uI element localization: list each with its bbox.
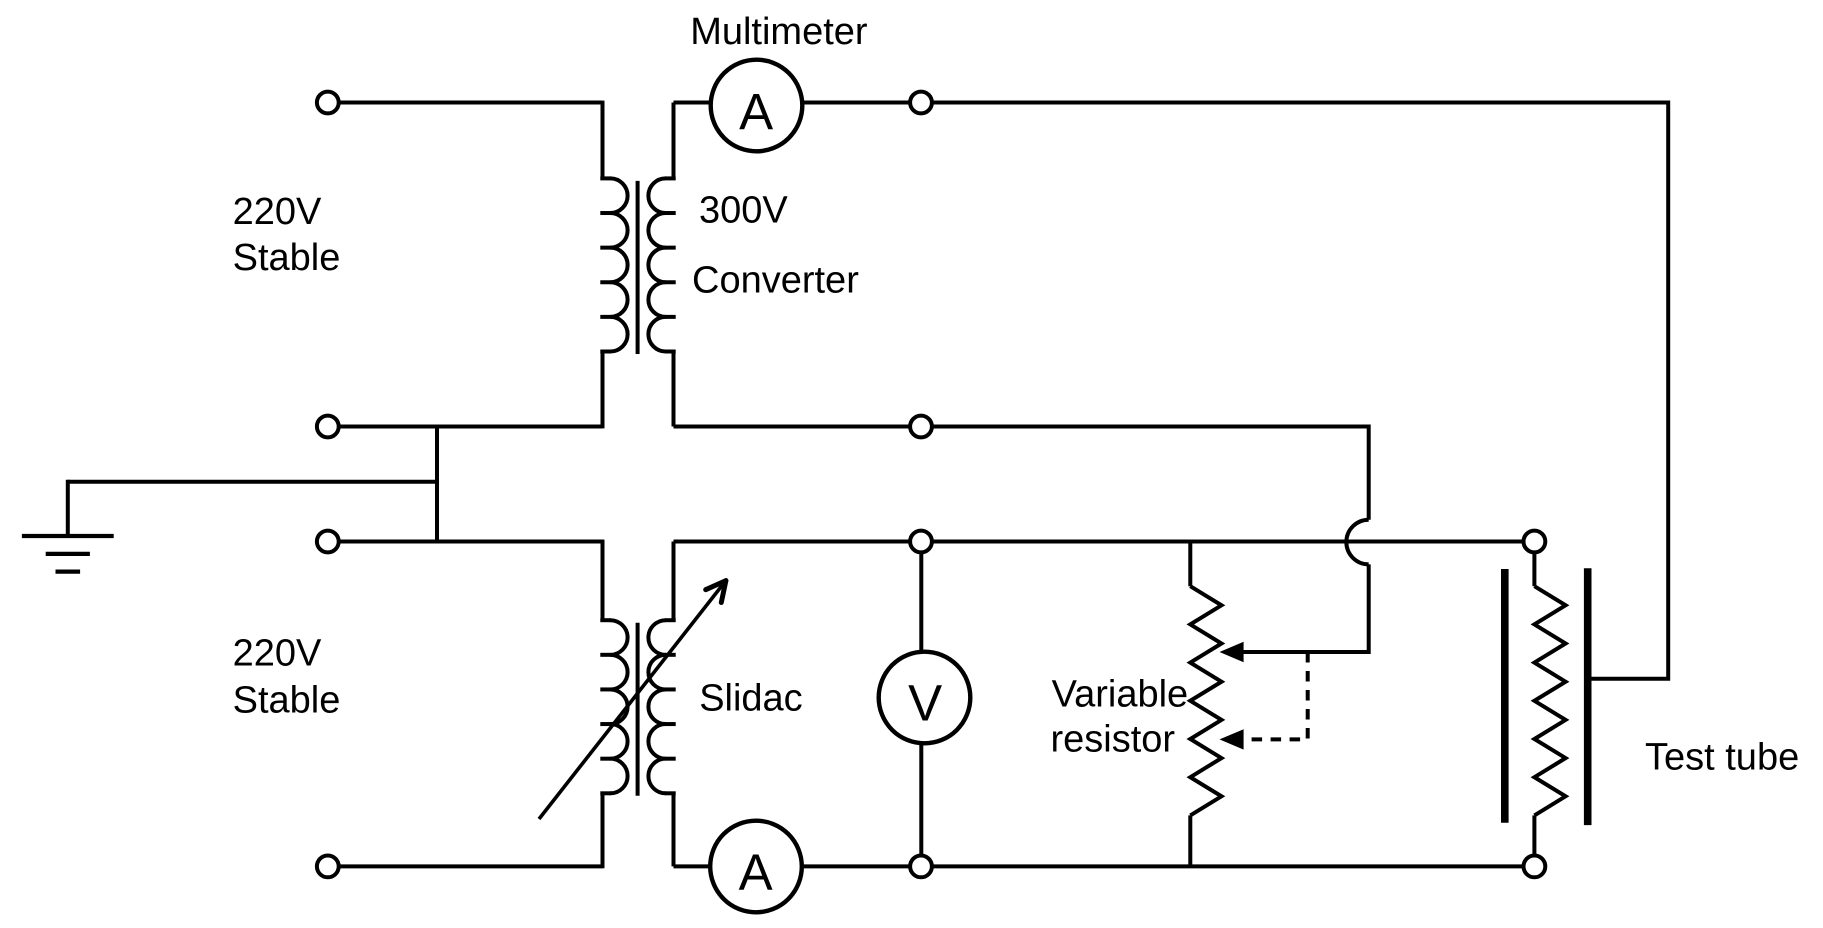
wire rail3: slidac to node N3 [674,540,911,544]
svg-text:Slidac: Slidac [699,678,803,720]
ammeter A2 [710,821,802,913]
wire dashed wiper linkage [1245,652,1308,739]
wire rail1: T1 to converter primary top [340,101,603,105]
resistor R2 test tube heating coil [1534,586,1565,815]
wire converter primary top lead [601,101,605,179]
transformer U1 Converter (220V:300V) [600,178,675,354]
svg-text:220V: 220V [233,191,322,233]
ground symbol [66,480,70,536]
node terminal T2 (220V stable -) [317,416,339,438]
wire converter secondary top lead [672,103,676,179]
svg-text:Test tube: Test tube [1645,737,1799,779]
svg-text:Stable: Stable [233,680,341,722]
wire rail3: T3 to slidac primary top [340,540,604,544]
svg-text:300V: 300V [699,189,788,231]
wire ground tap: junction to ground stem [68,480,437,484]
arrowhead wiper tap 2 (dashed) [1220,729,1244,749]
node N1 on rail1 [910,92,932,114]
wire test tube coil bottom lead [1532,815,1536,855]
node N2 on rail2 [910,416,932,438]
wire rail2: node N2 to corner, down to crossover hop [932,427,1369,520]
resistor R1 variable resistor [1190,542,1221,867]
svg-text:A: A [739,844,773,901]
svg-text:V: V [908,675,942,732]
svg-text:Variable: Variable [1052,674,1189,716]
svg-text:Converter: Converter [692,260,859,302]
node N6 test tube bottom [1524,856,1546,878]
node terminal T4 (variac input -) [317,856,339,878]
ammeter A1 (multimeter) [711,60,803,152]
wire slidac primary bottom lead [601,793,605,868]
wire rail2: converter to node N2 [674,425,911,429]
svg-text:Stable: Stable [233,237,341,279]
wire rail2: T2 to converter primary bottom [340,425,603,429]
wire hop: semicircular jump over rail3 [1346,520,1368,565]
wire rail4: node N5 to test tube bottom node N6 [932,864,1523,868]
wire junction vertical: rail2 to rail3 [435,427,439,542]
wire rail1: converter to ammeter A1 [674,101,710,105]
svg-text:A: A [739,84,773,141]
arrow variac adjustment (slidac diagonal arrow) [539,581,726,819]
wire rail1: node N1 to top-right corner, down to test tube electrode lead [932,103,1668,679]
wire converter primary bottom lead [601,352,605,429]
wire rail4: ammeter A2 to node N5 [803,864,910,868]
wire rail3: node N3 to test tube top node N4 [932,540,1523,544]
svg-text:Multimeter: Multimeter [690,11,868,53]
node N3 on rail3 (voltmeter tap) [910,531,932,553]
electrode plate left (test tube) [1501,569,1509,823]
wire slidac primary top lead [601,540,605,621]
svg-text:220V: 220V [233,633,322,675]
svg-text:resistor: resistor [1051,719,1176,761]
electrode plate right (test tube) [1584,568,1592,825]
wire rail1: ammeter A1 to node N1 [804,101,911,105]
node terminal T1 (220V stable +) [317,92,339,114]
voltmeter V1 [879,553,971,856]
transformer U2 Slidac (variac) [600,620,675,796]
wire rail4: slidac to ammeter A2 [674,864,710,868]
node N5 on rail4 (voltmeter bottom tap) [910,856,932,878]
arrowhead wiper tap 1 (solid) [1220,642,1244,662]
wire slidac secondary bottom lead [672,793,676,866]
wire converter secondary bottom lead [672,352,676,427]
wire slidac wiper feed: hop down then left to variable resistor [1242,564,1369,652]
node N4 test tube top [1524,531,1546,553]
node terminal T3 (variac input +) [317,531,339,553]
wire rail4: T4 to slidac primary bottom [340,864,603,868]
wire slidac secondary top lead [672,542,676,621]
wire test tube coil top lead [1532,553,1536,587]
